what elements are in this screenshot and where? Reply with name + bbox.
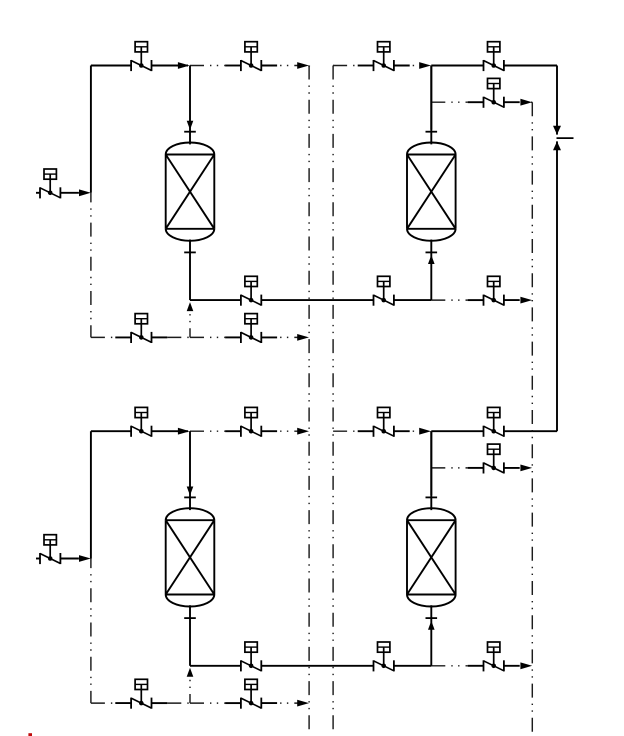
pipe: center riser 2 (dash-dot, full height) (332, 66, 334, 732)
arrow into vessel tee K22 (419, 428, 431, 435)
check valve on right main line (553, 126, 574, 150)
valve V21 (inlet K21) (131, 407, 151, 436)
pipe: unit 2 purge line from K22 riser (dash-dot) (431, 467, 467, 469)
pipe: center riser 1 (dash-dot, full height) (308, 66, 310, 734)
pipe: unit 2 lower dash-dot line (91, 702, 115, 704)
arrow into right dash riser (520, 465, 532, 472)
pipe: unit 1 purge line from K12 riser (dash-dot) (431, 101, 467, 103)
valve V10 (feed) (40, 169, 60, 198)
pipe: left riser unit 2 (solid above feed) (90, 431, 92, 558)
pipe: unit 1 top header right (solid) to right main (431, 65, 483, 67)
pipe: unit 2 bottom header dash-dot to right riser (431, 665, 467, 667)
pipe: unit 2 top header right (solid) to right main (431, 430, 483, 432)
vessel K21 (166, 508, 215, 606)
valve V27 (bottom header right) (374, 642, 394, 671)
valve V17 (bottom header right) (374, 276, 394, 305)
arrow into vessel tee K12 (419, 62, 431, 69)
vessel K12 top nozzle (426, 66, 438, 145)
arrow into right dash riser (520, 297, 532, 304)
valve V16 (bottom header) (241, 276, 261, 305)
node: riser 2 top corner to right (333, 65, 334, 67)
red mark (artifact) bottom left (28, 733, 32, 736)
vessel K12 bottom nozzle (426, 240, 438, 301)
pipe: right main line (solid), lower part below check valve (556, 141, 558, 431)
pipe: unit 1 bottom header dash-dot to right riser (431, 299, 467, 301)
arrow into left riser (79, 189, 91, 196)
valve V20 (feed) (40, 535, 60, 564)
valve V18 (bottom export) (468, 276, 520, 305)
arrow into right dash riser (520, 99, 532, 106)
pipe: riser into K22 top (430, 431, 432, 495)
pipe: left riser unit 1 (dash-dot below feed) (90, 193, 92, 338)
pipe: riser into K12 top (430, 66, 432, 130)
vessel K11 top nozzle (184, 66, 196, 145)
pipe: unit 1 feed stub (36, 192, 40, 194)
pipe: right main line (solid), upper part above check valve (556, 66, 558, 135)
pipe: unit 1 bottom header (solid) K11 to K12 (190, 299, 241, 301)
vessel K21 bottom nozzle (184, 605, 196, 703)
pipe: unit 1 lower dash-dot line (91, 336, 115, 338)
valve V22 (top crossover) (225, 407, 277, 436)
valve V26 (bottom header) (241, 642, 261, 671)
pipe: left riser unit 1 (solid above feed) (90, 66, 92, 193)
pipe: unit 1 top header dash-dot to center riser 1 (190, 65, 225, 67)
valve V12 (top crossover) (225, 42, 277, 71)
valve V11 (inlet K11) (131, 42, 151, 71)
pipe: unit 2 top header dash-dot to center riser 1 (190, 430, 225, 432)
valve V13 (top crossover right) (358, 42, 410, 71)
pipe: left riser unit 2 (dash-dot below feed) (90, 559, 92, 704)
pipe: unit 1 top header left (solid), from left riser to vessel tee (91, 65, 131, 67)
pipe: unit 2 feed stub (36, 558, 40, 560)
valve V19 (vent) (115, 314, 167, 343)
arrow into right dash riser (520, 662, 532, 669)
pipe: unit 2 right top header dash-dot from center riser 2 (333, 430, 358, 432)
pipe: unit 2 top header left (solid), from left riser to vessel tee (91, 430, 131, 432)
pipe: unit 1 right top header dash-dot from center riser 2 (333, 65, 358, 67)
arrow into left riser (79, 555, 91, 562)
arrow into center riser 1 (297, 700, 309, 707)
valve V28 (bottom export) (468, 642, 520, 671)
vessel K11 (166, 143, 215, 241)
vessel K22 bottom nozzle (426, 605, 438, 666)
valve V24 (outlet K22) (484, 407, 504, 436)
node: right dash riser top corner (531, 101, 532, 103)
valve V25 (purge) (468, 444, 520, 473)
arrow into vessel tee K11 (178, 62, 190, 69)
pipe: unit 2 bottom header (solid) K21 to K22 (190, 665, 241, 667)
pipe: right dash-dot riser (purge collector) (531, 102, 533, 736)
valve V29 (vent) (115, 679, 167, 708)
vessel K21 top nozzle (184, 431, 196, 510)
vessel K22 top nozzle (426, 431, 438, 510)
valve V110 (vent crossover) (225, 314, 277, 343)
arrow into center riser 1 (297, 334, 309, 341)
vessel K12 (407, 143, 456, 241)
arrow into center riser 1 (297, 62, 309, 69)
node: center riser 1 corner at top header (308, 66, 310, 67)
valve V210 (vent crossover) (225, 679, 277, 708)
vessel K22 (407, 508, 456, 606)
valve V23 (top crossover right) (358, 407, 410, 436)
arrow into center riser 1 (297, 428, 309, 435)
vessel K11 bottom nozzle (184, 240, 196, 338)
arrow into vessel tee K21 (178, 428, 190, 435)
valve V15 (purge) (468, 78, 520, 107)
valve V14 (outlet K12) (484, 42, 504, 71)
